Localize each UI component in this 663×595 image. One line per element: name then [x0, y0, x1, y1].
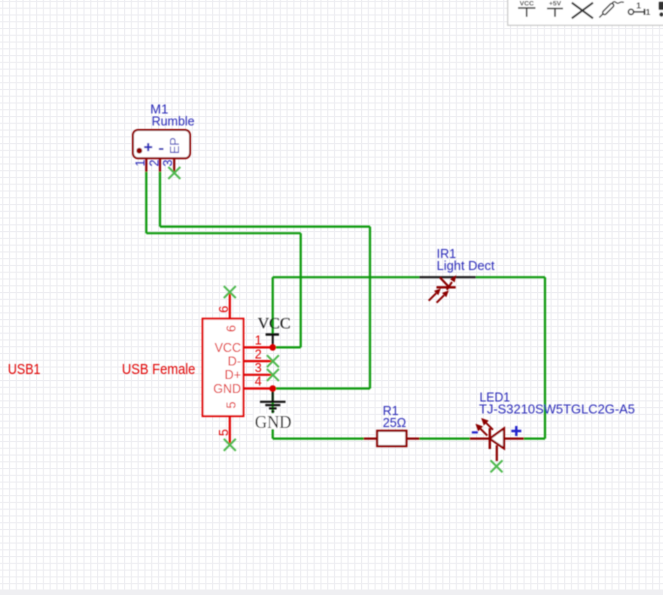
- resistor R1: [364, 431, 420, 446]
- M1 reference label: [150, 102, 168, 117]
- wire: [146, 232, 300, 234]
- wire: [273, 276, 420, 278]
- USB1 pin 6 number: [217, 306, 231, 313]
- connector USB1: [203, 292, 273, 445]
- USB1 pin name GND: [213, 382, 241, 396]
- svg-text:3: 3: [161, 160, 175, 167]
- LED1 plus polarity mark: [511, 426, 521, 436]
- svg-text:1: 1: [646, 7, 651, 17]
- svg-text:2: 2: [147, 160, 161, 167]
- svg-text:5: 5: [225, 402, 239, 409]
- USB1 pin name 5: [225, 402, 239, 409]
- wire: [300, 233, 302, 347]
- ground GND: [254, 389, 293, 432]
- svg-text:GND: GND: [213, 382, 241, 396]
- M1 pin 3 number: [161, 160, 175, 167]
- IR1 value label Light Dect: [437, 258, 495, 273]
- wire: [476, 276, 545, 278]
- USB1 pin 2 number: [255, 347, 262, 361]
- wire: [273, 346, 301, 348]
- svg-text:D-: D-: [228, 355, 241, 369]
- wire: [272, 277, 274, 334]
- svg-text:1: 1: [636, 1, 641, 11]
- toolbar panel: [508, 0, 663, 25]
- svg-text:2: 2: [255, 347, 262, 361]
- USB1 pin 1 number: [255, 334, 262, 348]
- junction node USB1 pin4 / GND: [269, 385, 276, 392]
- power flag VCC: [258, 315, 291, 347]
- svg-text:6: 6: [225, 325, 239, 332]
- no-connect X on LED1 bottom pin: [491, 460, 503, 472]
- wire: [273, 438, 364, 440]
- USB1 pin 5 number: [217, 429, 231, 436]
- svg-text:EP: EP: [168, 137, 182, 154]
- svg-text:6: 6: [217, 306, 231, 313]
- USB1 pin name VCC: [215, 341, 241, 355]
- M1 value label Rumble: [152, 114, 195, 129]
- svg-text:VCC: VCC: [520, 0, 534, 7]
- svg-text:TJ-S3210SW5TGLC2G-A5: TJ-S3210SW5TGLC2G-A5: [479, 402, 635, 417]
- toolbar icon netport: [628, 1, 650, 17]
- USB1 pin 4 number: [255, 375, 262, 389]
- no-connect X on USB1 pin 6: [224, 286, 236, 298]
- svg-text:+5V: +5V: [549, 1, 562, 8]
- toolbar icon VCC power flag: [518, 0, 536, 16]
- M1 pin 2 number: [147, 160, 161, 167]
- no-connect X on USB1 pin 5: [224, 439, 236, 451]
- junction node USB1 pin1 / VCC: [269, 344, 276, 351]
- no-connect X on USB1 pin 2: [267, 355, 279, 367]
- svg-text:USB Female: USB Female: [122, 361, 195, 378]
- wire: [145, 172, 147, 233]
- LED1 value label: [479, 402, 635, 417]
- wire: [159, 172, 161, 227]
- wire: [419, 438, 469, 440]
- svg-text:25Ω: 25Ω: [383, 415, 407, 430]
- R1 value label 25 ohm: [383, 415, 407, 430]
- motor M1: [133, 130, 190, 173]
- no-connect X on M1 pin 3: [168, 167, 180, 179]
- wire: [369, 227, 371, 389]
- photodiode IR1: [419, 276, 476, 303]
- wire: [524, 438, 545, 440]
- USB1 pin name 6: [225, 325, 239, 332]
- USB1 reference label: [8, 361, 41, 378]
- LED1 reference label: [480, 389, 511, 404]
- svg-text:Rumble: Rumble: [152, 114, 195, 129]
- svg-text:5: 5: [217, 429, 231, 436]
- toolbar icon partial at edge: [659, 2, 663, 17]
- LED1 minus polarity mark: [472, 431, 478, 433]
- svg-text:VCC: VCC: [215, 341, 241, 355]
- wire: [272, 389, 274, 439]
- svg-text:USB1: USB1: [8, 361, 41, 378]
- USB1 value label USB Female: [122, 361, 195, 378]
- M1 pin 1 number: [134, 160, 148, 167]
- svg-text:3: 3: [255, 361, 262, 375]
- toolbar icon voltage probe: [599, 2, 624, 18]
- wire: [160, 226, 370, 228]
- svg-text:Light Dect: Light Dect: [437, 258, 495, 273]
- USB1 pin name D+: [225, 368, 241, 382]
- svg-text:1: 1: [255, 334, 262, 348]
- svg-text:1: 1: [134, 160, 148, 167]
- wire: [273, 387, 370, 389]
- LED LED1: [470, 419, 524, 461]
- toolbar icon +5V power flag: [547, 1, 563, 17]
- svg-text:D+: D+: [225, 368, 241, 382]
- IR1 reference label: [437, 246, 457, 261]
- svg-text:GND: GND: [255, 412, 292, 432]
- toolbar icon no-connect X: [572, 3, 593, 19]
- svg-text:VCC: VCC: [258, 315, 291, 332]
- no-connect X on USB1 pin 3: [267, 369, 279, 381]
- R1 reference label: [383, 403, 399, 418]
- wire: [544, 277, 546, 438]
- USB1 pin 3 number: [255, 361, 262, 375]
- USB1 pin name D-: [228, 355, 241, 369]
- svg-text:4: 4: [255, 375, 262, 389]
